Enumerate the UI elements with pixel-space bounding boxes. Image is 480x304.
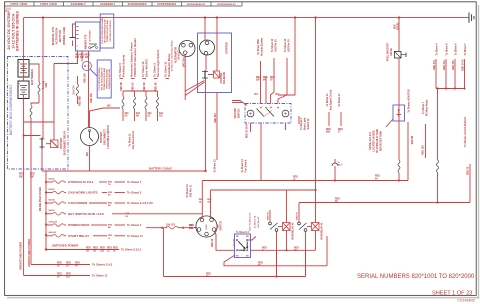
svg-text:RED 30E: RED 30E bbox=[91, 93, 93, 103]
svg-text:Vacuum System: Vacuum System bbox=[260, 38, 263, 56]
key switch area labels bbox=[186, 184, 222, 247]
svg-text:AMEREX FTS: AMEREX FTS bbox=[85, 34, 88, 49]
svg-text:RED 24A: RED 24A bbox=[443, 60, 446, 70]
svg-text:B/U: B/U bbox=[107, 106, 111, 108]
svg-text:START RELAY: START RELAY bbox=[68, 234, 90, 238]
svg-text:Service Light Switch: Service Light Switch bbox=[156, 49, 160, 77]
label red 06 row bbox=[335, 166, 469, 203]
battery cable corner up right bbox=[202, 180, 408, 182]
svg-text:BATTERIES IN SERIES: BATTERIES IN SERIES bbox=[16, 11, 20, 51]
top mid label cluster bbox=[118, 38, 171, 79]
svg-text:4A: 4A bbox=[75, 265, 78, 268]
svg-text:STARTER: STARTER bbox=[220, 72, 223, 83]
battery disconnect lockable switch S1 bbox=[81, 128, 99, 146]
svg-text:To Sheet 11: To Sheet 11 bbox=[127, 234, 143, 238]
wire fuse node down to bottom bus bbox=[163, 228, 165, 277]
svg-text:B/Y: B/Y bbox=[255, 94, 259, 96]
wire relay1 contact bottom bbox=[305, 231, 307, 276]
svg-text:BATTERIES: BATTERIES bbox=[30, 69, 34, 85]
svg-text:RUN RELAY #2: RUN RELAY #2 bbox=[292, 222, 295, 240]
wire corner into battery box bbox=[54, 59, 78, 64]
vacuum switch box (dash-dot) bbox=[245, 104, 291, 124]
svg-text:11B: 11B bbox=[100, 251, 104, 253]
svg-text:K52 Pin 37: K52 Pin 37 bbox=[258, 216, 260, 228]
svg-text:To Sheet 2,3,11: To Sheet 2,3,11 bbox=[121, 248, 141, 252]
labels red 30C 30F below box bbox=[19, 174, 35, 179]
svg-text:30F: 30F bbox=[256, 80, 261, 82]
svg-text:RED 06: RED 06 bbox=[268, 211, 270, 219]
svg-text:6C: 6C bbox=[294, 250, 297, 252]
top mid-right stub labels bbox=[257, 38, 290, 56]
svg-text:CAB POWER: CAB POWER bbox=[68, 201, 88, 205]
alternator G1 bbox=[179, 41, 195, 57]
BATTERY CABLE wire bbox=[42, 170, 206, 172]
svg-text:ASSEMBLY: ASSEMBLY bbox=[71, 2, 86, 6]
svg-text:RED 9B: RED 9B bbox=[121, 82, 123, 91]
svg-text:To Sheet 10: To Sheet 10 bbox=[214, 159, 217, 173]
fuse row 3: CAB POWER bbox=[46, 198, 153, 207]
fuse bus node dots bbox=[45, 181, 47, 183]
svg-text:POWER SOURCE AND: POWER SOURCE AND bbox=[106, 19, 109, 42]
svg-text:RED 9C: RED 9C bbox=[132, 82, 134, 91]
starter motor M1 bbox=[200, 40, 215, 55]
FTS note box lower bbox=[97, 60, 111, 98]
svg-text:RED 05: RED 05 bbox=[467, 166, 469, 175]
svg-text:125A-U25: 125A-U25 bbox=[48, 220, 57, 223]
wire fuse top link bbox=[123, 90, 158, 92]
svg-text:ASSEMBLY: ASSEMBLY bbox=[100, 2, 115, 6]
svg-text:To Sheet 17: To Sheet 17 bbox=[338, 93, 341, 107]
right top stub labels bbox=[433, 43, 467, 71]
fuse F3 10A-C04 bbox=[77, 76, 79, 104]
svg-text:RED 99B: RED 99B bbox=[80, 96, 82, 106]
node dots on bus bbox=[42, 16, 44, 18]
label red 02 on battery cable riser bbox=[293, 176, 380, 182]
svg-text:9A: 9A bbox=[206, 275, 209, 278]
wire relay2 contact bottom bbox=[276, 231, 278, 276]
svg-text:SWITCH: SWITCH bbox=[238, 109, 241, 119]
right stub group wires bbox=[436, 59, 466, 90]
wire bus drop x295 to vacuum switch bbox=[278, 18, 295, 95]
wire x305 drop bbox=[305, 250, 307, 276]
svg-text:SHEET 1 OF 23: SHEET 1 OF 23 bbox=[432, 290, 472, 296]
svg-text:K52 Pin 30: K52 Pin 30 bbox=[287, 39, 290, 52]
svg-text:CAB WORK LIGHTS: CAB WORK LIGHTS bbox=[68, 191, 98, 195]
svg-text:K52 Pin 30: K52 Pin 30 bbox=[274, 39, 277, 52]
svg-text:RED 9B: RED 9B bbox=[412, 135, 414, 144]
svg-text:RED: RED bbox=[57, 274, 62, 276]
svg-text:SUPERSEDES: SUPERSEDES bbox=[157, 2, 176, 6]
svg-text:RED 994: RED 994 bbox=[214, 113, 217, 123]
svg-text:To Sheet 4: To Sheet 4 bbox=[436, 43, 439, 56]
wire relay2 coil bottom bbox=[286, 231, 288, 251]
wire switch bottom to battery cable bbox=[89, 146, 91, 172]
svg-text:To Sheet 7: To Sheet 7 bbox=[464, 43, 467, 56]
svg-text:CHRG: CHRG bbox=[206, 224, 208, 230]
svg-text:SUPERSEDES: SUPERSEDES bbox=[128, 2, 147, 6]
fuse row 5: POWER ROOF bbox=[46, 220, 142, 229]
svg-text:TODDCAT Harvester Heads: TODDCAT Harvester Heads bbox=[133, 38, 137, 77]
wires from FTS box to battery box bbox=[77, 51, 79, 59]
labels above vacuum switch bbox=[255, 77, 280, 96]
alternator B+ wire bbox=[184, 54, 186, 100]
switched power wire row y249 bbox=[46, 248, 141, 253]
inline fuse block F5-F8 bbox=[121, 82, 164, 121]
svg-text:RED: RED bbox=[93, 248, 98, 250]
wire RED06 run bbox=[299, 202, 470, 204]
svg-text:STARTER: STARTER bbox=[226, 42, 229, 54]
svg-text:3B: 3B bbox=[93, 251, 96, 253]
svg-text:FDR: FDR bbox=[46, 82, 48, 87]
crossover wire y122 bbox=[24, 121, 54, 123]
wire long bus drop x315 to run relay 1 coil bbox=[315, 18, 317, 223]
battery negative cable down bbox=[23, 94, 25, 276]
svg-text:BO: BO bbox=[276, 94, 280, 96]
svg-text:RED 30E: RED 30E bbox=[84, 73, 86, 83]
wire motor to solenoid bbox=[205, 55, 207, 71]
note 24 volt system bbox=[7, 11, 20, 51]
wire vacuum sw bottom drop to y180 bbox=[260, 123, 262, 181]
svg-text:50A-IN: 50A-IN bbox=[48, 198, 55, 201]
battery disconnect relay K2 bbox=[40, 122, 59, 149]
svg-text:RELAY DISCONNECTS: RELAY DISCONNECTS bbox=[100, 67, 103, 90]
wire relay2 contact top bbox=[269, 210, 271, 222]
wire spur y191 to run relay 2 coil bbox=[211, 189, 316, 191]
drop shadow bottom edge bbox=[7, 297, 479, 299]
diode pointer line bbox=[386, 119, 393, 127]
svg-text:(24GA): (24GA) bbox=[397, 23, 400, 31]
svg-text:RED: RED bbox=[75, 263, 80, 265]
svg-text:5C: 5C bbox=[258, 265, 261, 267]
FTS note box upper bbox=[100, 14, 114, 48]
starter box bbox=[198, 33, 232, 93]
svg-text:To Sheets 2,4,5: To Sheets 2,4,5 bbox=[92, 263, 113, 267]
label manual FTS button bbox=[51, 27, 66, 45]
svg-text:INLINE MAXI FUSES: INLINE MAXI FUSES bbox=[39, 187, 42, 212]
unswitched power wire row y275 bbox=[24, 274, 108, 279]
svg-text:Key Signal Circuit: Key Signal Circuit bbox=[329, 90, 332, 111]
svg-text:RED: RED bbox=[19, 174, 24, 176]
run relay 1 coil bbox=[307, 223, 319, 231]
svg-text:SWITCHED POWER: SWITCHED POWER bbox=[52, 243, 78, 247]
fuel shutoff valve V1 bbox=[395, 52, 407, 59]
key accessory diode box D1 bbox=[233, 234, 251, 258]
label key signal circuit bbox=[326, 90, 332, 134]
Amerex FTS relay box U1 bbox=[76, 22, 101, 51]
svg-text:RELAY (ENERGIZED BY: RELAY (ENERGIZED BY bbox=[104, 19, 107, 43]
fuse F9 bbox=[398, 160, 400, 172]
wire lockable switch to vacuum switch bbox=[232, 101, 247, 106]
main 24V bus wire across top bbox=[24, 17, 469, 19]
svg-text:UNSWITCHED POWER: UNSWITCHED POWER bbox=[19, 242, 23, 270]
manual FTS pushbutton bbox=[70, 24, 76, 46]
svg-text:BAT (B+): BAT (B+) bbox=[183, 57, 186, 67]
title header strip bbox=[5, 2, 242, 13]
svg-text:RED: RED bbox=[66, 263, 71, 265]
svg-text:SUPERSEDED BY: SUPERSEDED BY bbox=[217, 4, 236, 6]
battery series link wire bbox=[23, 56, 25, 81]
svg-text:(INSIDE CAB): (INSIDE CAB) bbox=[62, 27, 66, 45]
svg-text:POWER ROOF: POWER ROOF bbox=[68, 223, 90, 227]
node battery cable / starter bbox=[204, 170, 206, 172]
wire to disconnect relay contact bbox=[24, 135, 41, 137]
svg-text:RED: RED bbox=[30, 174, 35, 176]
fuse F10 bbox=[437, 160, 439, 172]
wire valve down through diode bbox=[398, 58, 400, 160]
svg-text:RED: RED bbox=[57, 263, 62, 265]
wire RED05 riser right bbox=[469, 164, 471, 203]
svg-text:SYSTEM ACTIVATED): SYSTEM ACTIVATED) bbox=[109, 20, 112, 42]
svg-text:11C: 11C bbox=[159, 116, 163, 118]
wire key switch bottom to diode box bbox=[214, 231, 235, 250]
svg-text:11A: 11A bbox=[66, 276, 70, 279]
svg-text:RED 25A: RED 25A bbox=[422, 145, 425, 155]
svg-text:FIRST USED: FIRST USED bbox=[11, 2, 28, 6]
run relay 2 contact bbox=[269, 222, 278, 231]
svg-text:50A-IN: 50A-IN bbox=[48, 188, 55, 191]
labels under FTS box bbox=[75, 55, 90, 59]
wire solenoid down to battery cable bbox=[205, 79, 207, 171]
label work light switch 2 bbox=[299, 116, 310, 130]
svg-text:RED: RED bbox=[66, 274, 71, 276]
svg-text:RED 9D: RED 9D bbox=[144, 82, 146, 91]
pull switch S2 bbox=[332, 159, 343, 181]
inline fuse F2 left column bbox=[30, 106, 32, 265]
wire relay1 coil bottom bbox=[315, 231, 317, 251]
wire diode box out y250 bbox=[251, 249, 316, 251]
wire vacuum sw inputs from top labels bbox=[260, 61, 262, 104]
svg-text:To Sheet 4: To Sheet 4 bbox=[127, 223, 142, 227]
wire bus drop to solenoid coil bbox=[216, 18, 218, 71]
label red 994 / to sheet 10 bbox=[216, 93, 218, 161]
key switch S3 bbox=[196, 216, 217, 237]
svg-text:To Sheet 2,4,6,7,20: To Sheet 2,4,6,7,20 bbox=[127, 201, 153, 205]
wire solenoid diagonal feed bbox=[185, 81, 204, 92]
svg-text:99A: 99A bbox=[326, 131, 331, 134]
wire bus left drop to battery bbox=[23, 18, 25, 56]
wire y265 row bbox=[224, 255, 327, 266]
svg-text:2C: 2C bbox=[148, 116, 151, 118]
svg-text:RED: RED bbox=[86, 248, 91, 250]
svg-text:RED 24-30: RED 24-30 bbox=[461, 59, 464, 71]
svg-text:RED: RED bbox=[113, 248, 118, 250]
svg-text:Pre-Heat System: Pre-Heat System bbox=[121, 54, 125, 77]
svg-text:RED 30-30A4: RED 30-30A4 bbox=[246, 123, 249, 138]
svg-text:50A-IN: 50A-IN bbox=[48, 177, 55, 180]
fuse row 6: START RELAY bbox=[46, 231, 143, 240]
svg-text:LOCKABLE SWITCH: LOCKABLE SWITCH bbox=[107, 125, 110, 149]
wire bus drop x43 to disconnect relay bbox=[42, 18, 44, 138]
FTS power relay K1 (circle) bbox=[82, 61, 97, 76]
svg-text:Key Disconnect: Key Disconnect bbox=[132, 131, 135, 149]
svg-text:30B: 30B bbox=[75, 57, 80, 59]
drop shadow right edge bbox=[478, 5, 479, 299]
svg-text:To Sheets 4,13,15,18,20,21: To Sheets 4,13,15,18,20,21 bbox=[464, 116, 467, 147]
svg-text:30F: 30F bbox=[85, 57, 90, 59]
svg-text:Pos Ltg: Pos Ltg bbox=[42, 80, 45, 89]
svg-text:K52 Pin 11: K52 Pin 11 bbox=[189, 184, 192, 197]
svg-text:B/U: B/U bbox=[87, 152, 89, 156]
svg-text:2A: 2A bbox=[66, 265, 69, 268]
wire switch top jog to fuse row bbox=[90, 108, 121, 127]
svg-text:2C: 2C bbox=[107, 251, 110, 253]
svg-text:AC/Heat Relay: AC/Heat Relay bbox=[425, 99, 428, 116]
wire vacuum sw bottom stub 2 bbox=[285, 123, 287, 130]
svg-text:RED: RED bbox=[100, 248, 105, 250]
svg-text:DIODE, Amf-301: DIODE, Amf-301 bbox=[369, 132, 372, 150]
fuel shutoff valve line bbox=[398, 18, 400, 51]
svg-text:10A-C04: 10A-C04 bbox=[73, 85, 76, 95]
svg-text:9A: 9A bbox=[263, 79, 266, 82]
battery box compartment (dash-dot) bbox=[8, 57, 69, 170]
svg-text:BATTERY CABLE: BATTERY CABLE bbox=[149, 166, 172, 170]
svg-text:10-C04: 10-C04 bbox=[233, 239, 236, 247]
svg-text:40A-G02: 40A-G02 bbox=[48, 231, 56, 234]
svg-text:Fan Switch: Fan Switch bbox=[244, 159, 247, 172]
svg-text:BLK: BLK bbox=[395, 24, 397, 29]
svg-text:To Sheet 14: To Sheet 14 bbox=[254, 215, 257, 228]
wire key switch upper stubs bbox=[201, 181, 203, 219]
switched power feeder bus bbox=[45, 171, 47, 250]
battery B1 bbox=[18, 60, 29, 78]
wire x437 drop bbox=[437, 89, 439, 161]
svg-text:DISCONNECT RELAY: DISCONNECT RELAY bbox=[64, 130, 67, 155]
svg-text:To Sheet 8: To Sheet 8 bbox=[455, 43, 458, 56]
svg-text:To Sheet 11: To Sheet 11 bbox=[92, 274, 108, 278]
svg-text:RED: RED bbox=[107, 248, 112, 250]
svg-text:RED 05: RED 05 bbox=[297, 211, 299, 219]
wire relay1 contact top from RED06 bbox=[298, 203, 300, 223]
battery B2 bbox=[18, 81, 29, 99]
starter solenoid K3 bbox=[202, 71, 220, 80]
unswitched power wire row y264 bbox=[31, 263, 113, 268]
wire AC heat relay stub bbox=[425, 124, 427, 158]
svg-text:30C: 30C bbox=[19, 176, 24, 178]
svg-text:Switch #2: Switch #2 bbox=[307, 118, 310, 130]
diode box D2 bbox=[393, 105, 405, 121]
run relay 2 coil bbox=[278, 223, 290, 231]
svg-text:To Sheet 7: To Sheet 7 bbox=[127, 180, 142, 184]
svg-text:HYDRAULIC FILL: HYDRAULIC FILL bbox=[68, 180, 94, 184]
svg-text:RUN RELAY #1: RUN RELAY #1 bbox=[321, 222, 324, 240]
bottom network labels bbox=[206, 231, 299, 278]
svg-text:RED 25C: RED 25C bbox=[453, 60, 455, 70]
run relay 1 contact bbox=[298, 222, 307, 231]
svg-text:KEY: KEY bbox=[217, 223, 219, 228]
svg-text:RED 99: RED 99 bbox=[212, 238, 214, 247]
svg-text:SWITCH: SWITCH bbox=[220, 221, 222, 230]
svg-text:FROM RESTARTING: FROM RESTARTING bbox=[108, 69, 111, 89]
wire x276 drop bbox=[276, 250, 278, 276]
fuse row 2: CAB WORK LIGHTS bbox=[46, 188, 142, 197]
svg-text:To Sheet 14: To Sheet 14 bbox=[236, 231, 249, 234]
svg-text:To Sheet 3: To Sheet 3 bbox=[127, 191, 142, 195]
ground at right end of bus bbox=[469, 12, 474, 22]
svg-text:2B: 2B bbox=[86, 251, 89, 253]
wire bus drop to starter motor bbox=[204, 18, 206, 40]
svg-text:POWER SOURCE AND: POWER SOURCE AND bbox=[103, 67, 106, 90]
svg-text:SERIAL NUMBERS 820*1001 TO 820: SERIAL NUMBERS 820*1001 TO 820*2000 bbox=[357, 274, 475, 280]
svg-text:VALVE: VALVE bbox=[390, 48, 393, 56]
svg-text:SUPERSEDED BY: SUPERSEDED BY bbox=[187, 4, 206, 6]
svg-text:3C: 3C bbox=[113, 251, 116, 253]
svg-text:50A-IN: 50A-IN bbox=[48, 209, 55, 212]
svg-text:FIRST USED: FIRST USED bbox=[40, 2, 57, 6]
diode note label bbox=[369, 129, 383, 154]
svg-text:SOLENOID: SOLENOID bbox=[224, 72, 226, 84]
svg-text:30A: 30A bbox=[126, 212, 130, 215]
fuse row 1: HYDRAULIC FILL bbox=[46, 177, 142, 186]
svg-text:UNSWITCHED POWER: UNSWITCHED POWER bbox=[27, 239, 31, 267]
svg-text:24 VOLT: 24 VOLT bbox=[178, 50, 181, 60]
svg-text:30F: 30F bbox=[30, 176, 35, 178]
key feed fuse F4 10A-C02 bbox=[146, 223, 197, 230]
svg-text:LOCATED ON SIDE: LOCATED ON SIDE bbox=[373, 130, 376, 151]
svg-text:To Sheet 8: To Sheet 8 bbox=[446, 43, 449, 56]
node battery cable bbox=[23, 134, 25, 136]
wire y276 row bbox=[164, 276, 306, 278]
svg-text:RED 241: RED 241 bbox=[433, 60, 436, 70]
wire x408 riser bbox=[407, 122, 409, 181]
alternator labels bbox=[171, 40, 186, 72]
svg-text:RED 9E: RED 9E bbox=[155, 82, 157, 91]
label to sheet 17 bbox=[338, 93, 343, 134]
pos ltg feeder fuse F1 bbox=[29, 64, 40, 105]
svg-text:4B: 4B bbox=[136, 115, 139, 118]
svg-text:OF HYDRAULIC TANK: OF HYDRAULIC TANK bbox=[376, 129, 379, 154]
svg-text:To Sheets 4/14/17/18: To Sheets 4/14/17/18 bbox=[408, 89, 411, 113]
wire x327 riser bbox=[326, 236, 328, 266]
svg-text:2A: 2A bbox=[125, 115, 128, 118]
svg-text:To Sheet 11 Grid Heater Relay: To Sheet 11 Grid Heater Relay bbox=[171, 40, 174, 72]
svg-text:Harv To Sheet 74: Harv To Sheet 74 bbox=[249, 212, 252, 230]
svg-text:KEY SWITCH RUN / ACC: KEY SWITCH RUN / ACC bbox=[68, 212, 105, 216]
svg-text:(Gen 404 RTC: (Gen 404 RTC bbox=[144, 59, 148, 77]
svg-text:30E: 30E bbox=[80, 57, 85, 59]
svg-text:SHUTDOWN: SHUTDOWN bbox=[90, 30, 92, 42]
svg-text:Grid Heater Relay: Grid Heater Relay bbox=[167, 53, 171, 77]
run relay labels bbox=[249, 211, 324, 239]
svg-text:7321468RD: 7321468RD bbox=[457, 298, 476, 302]
svg-text:ABOVE DEF TANK: ABOVE DEF TANK bbox=[380, 131, 383, 152]
svg-text:30B: 30B bbox=[207, 201, 211, 203]
svg-text:BATTERY BOX COMPARTMENT: BATTERY BOX COMPARTMENT bbox=[9, 85, 13, 136]
svg-text:10A-C02: 10A-C02 bbox=[166, 223, 176, 226]
label to sheet 14 fan switch bbox=[241, 159, 247, 173]
fuse row 4: KEY SWITCH RUN / ACC bbox=[46, 209, 202, 218]
wire vacuum sw bottom stub 1 bbox=[250, 123, 252, 132]
wire relay to battery cable bbox=[41, 149, 43, 172]
